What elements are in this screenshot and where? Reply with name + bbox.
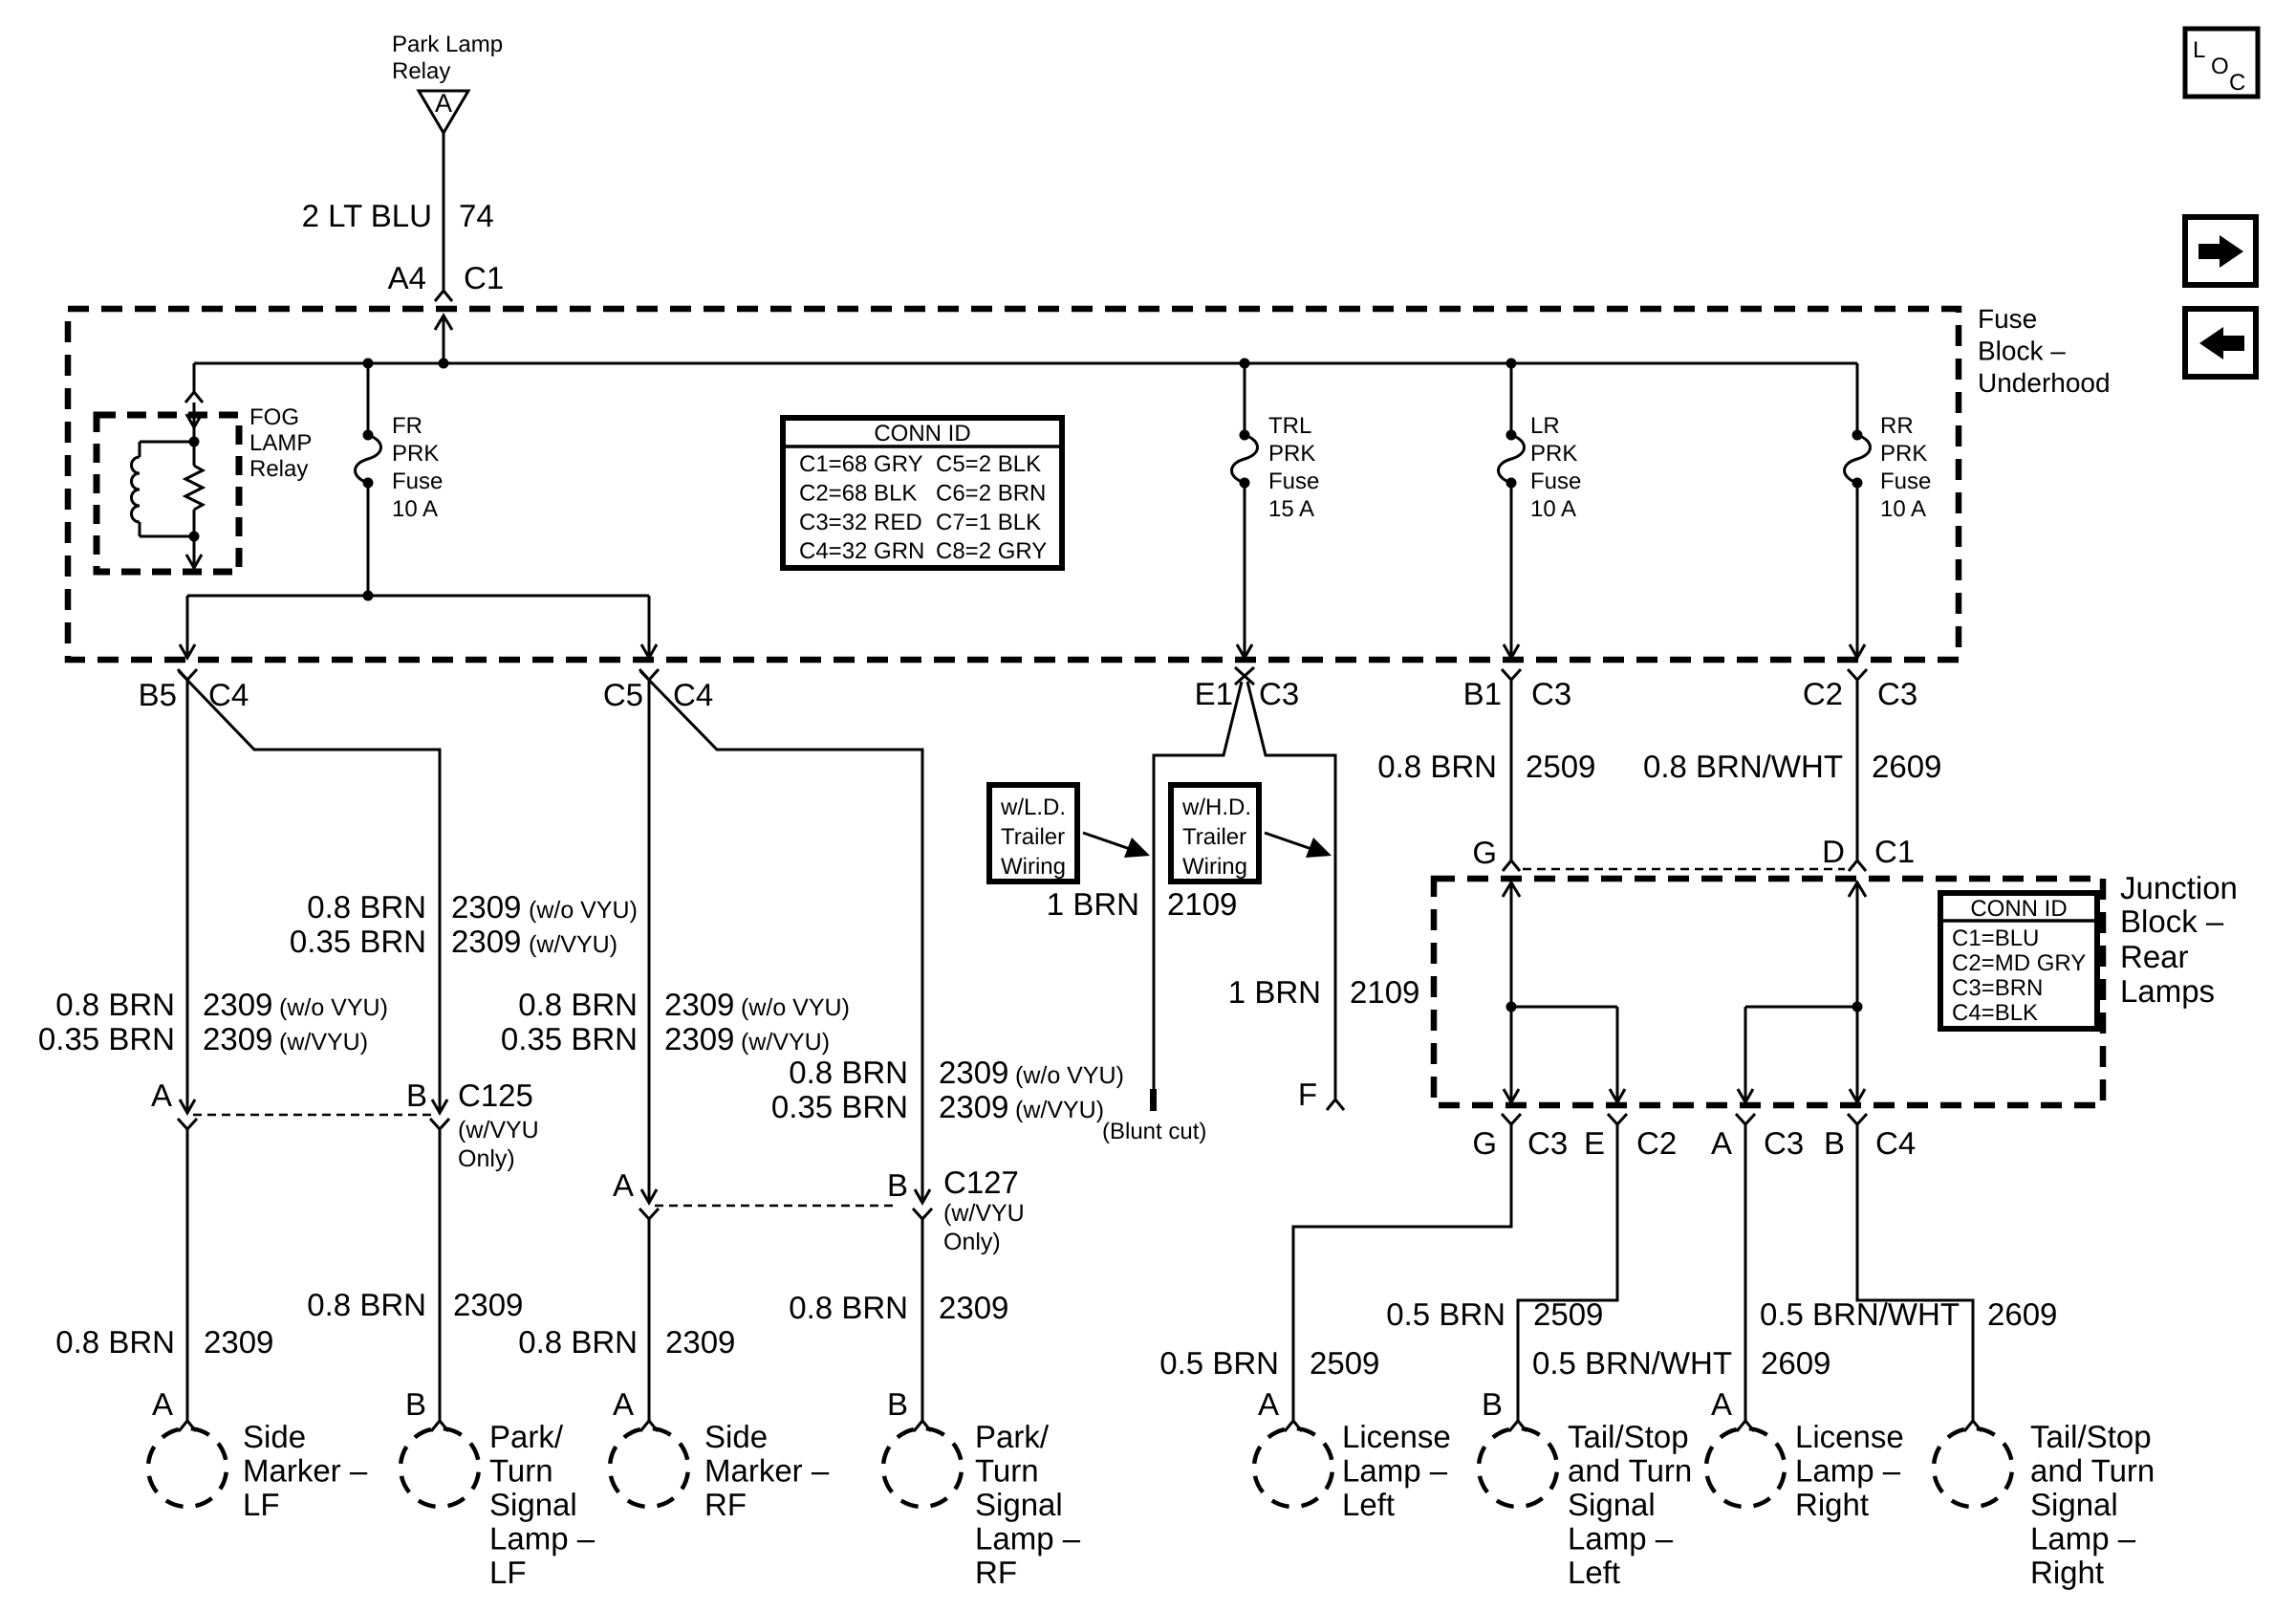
side marker RF lamp — [605, 1424, 692, 1511]
svg-text:Lamp –: Lamp – — [1795, 1453, 1901, 1489]
wire: G into junction block — [1510, 882, 1513, 1007]
svg-text:0.8 BRN: 0.8 BRN — [1377, 749, 1497, 784]
svg-text:Fuse: Fuse — [1880, 468, 1931, 494]
arrow at C5 — [641, 644, 657, 658]
svg-text:Fuse: Fuse — [1530, 468, 1581, 494]
svg-text:(Blunt cut): (Blunt cut) — [1102, 1119, 1206, 1144]
fog relay bottom junction — [189, 532, 200, 542]
fuse block CONN ID table — [783, 418, 1062, 568]
svg-text:Tail/Stop: Tail/Stop — [2030, 1419, 2152, 1454]
arrow into junction block G — [1503, 882, 1520, 897]
svg-text:2 LT BLU: 2 LT BLU — [302, 198, 432, 233]
svg-text:C6=2 BRN: C6=2 BRN — [936, 481, 1046, 507]
svg-text:C3: C3 — [1527, 1125, 1568, 1161]
svg-text:Lamp –: Lamp – — [2030, 1521, 2136, 1557]
wire: TRL fuse to E1 — [1244, 483, 1246, 658]
svg-text:F: F — [1298, 1077, 1317, 1112]
wire: B to tail/stop lamp right — [1857, 1124, 1973, 1421]
svg-text:A: A — [613, 1167, 634, 1203]
fog relay resistor — [193, 442, 196, 466]
fog relay coil — [132, 457, 141, 522]
svg-text:C1: C1 — [464, 260, 504, 295]
svg-text:(w/o VYU): (w/o VYU) — [1015, 1062, 1124, 1089]
lamp connector — [640, 1421, 658, 1431]
wire: fog relay to box edge — [193, 536, 196, 568]
svg-text:Fuse: Fuse — [392, 468, 443, 494]
svg-text:0.8 BRN: 0.8 BRN — [55, 1324, 175, 1360]
svg-text:C2: C2 — [1803, 676, 1843, 711]
wire: splice to A — [1745, 1006, 1857, 1009]
svg-text:2109: 2109 — [1350, 974, 1419, 1010]
svg-text:0.8 BRN: 0.8 BRN — [789, 1055, 908, 1090]
svg-text:C5: C5 — [603, 677, 643, 712]
wire: C1 to bus — [443, 316, 445, 363]
right arrow icon — [2185, 217, 2256, 285]
svg-text:0.35 BRN: 0.35 BRN — [290, 924, 426, 959]
svg-text:Turn: Turn — [489, 1453, 553, 1489]
svg-text:A: A — [151, 1078, 172, 1113]
svg-text:C1: C1 — [1874, 834, 1915, 869]
svg-text:Lamp –: Lamp – — [489, 1521, 596, 1557]
svg-text:Right: Right — [2030, 1555, 2104, 1590]
arrow at C127 B — [915, 1189, 930, 1203]
svg-text:C2=MD GRY: C2=MD GRY — [1952, 950, 2086, 976]
svg-text:C4=32 GRN: C4=32 GRN — [799, 538, 924, 564]
svg-text:C7=1 BLK: C7=1 BLK — [936, 510, 1041, 535]
svg-text:Lamp –: Lamp – — [975, 1521, 1081, 1557]
svg-text:w/H.D.: w/H.D. — [1181, 795, 1251, 820]
svg-text:0.8 BRN: 0.8 BRN — [789, 1290, 908, 1325]
park/turn signal RF lamp — [878, 1424, 965, 1511]
svg-text:Park/: Park/ — [489, 1419, 564, 1454]
svg-text:Lamps: Lamps — [2120, 973, 2215, 1009]
connector C127 B — [913, 1208, 932, 1219]
svg-text:2309: 2309 — [665, 1324, 735, 1360]
arrow at C2 — [1850, 644, 1865, 658]
wire: relay A to fuse block C1 — [443, 133, 445, 291]
wire: splice to G out — [1510, 1007, 1513, 1102]
arrow into fuse block — [435, 316, 452, 330]
svg-text:LAMP: LAMP — [249, 430, 312, 456]
svg-text:(w/o VYU): (w/o VYU) — [529, 897, 638, 924]
svg-text:and Turn: and Turn — [2030, 1453, 2155, 1489]
bus wire in fuse block — [194, 362, 1857, 365]
svg-text:C2: C2 — [1636, 1125, 1677, 1161]
svg-text:C127: C127 — [943, 1165, 1019, 1200]
svg-text:C: C — [2229, 70, 2245, 96]
wire: splice to A out — [1744, 1007, 1747, 1102]
svg-text:A: A — [1711, 1386, 1732, 1422]
svg-text:License: License — [1795, 1419, 1904, 1454]
svg-text:0.35 BRN: 0.35 BRN — [38, 1021, 175, 1056]
wire: C127 to side marker RF — [648, 1219, 651, 1421]
svg-text:O: O — [2211, 54, 2229, 79]
svg-text:(w/o VYU): (w/o VYU) — [741, 994, 850, 1021]
wire: C125 to park/turn LF — [439, 1129, 442, 1421]
wire into fog relay box — [193, 403, 196, 442]
svg-text:0.8 BRN: 0.8 BRN — [307, 1287, 426, 1322]
lamp connector — [1737, 1421, 1754, 1431]
svg-text:2509: 2509 — [1310, 1345, 1379, 1381]
svg-text:0.8 BRN: 0.8 BRN — [307, 889, 426, 925]
lamp connector — [914, 1421, 931, 1431]
svg-text:Marker –: Marker – — [243, 1453, 368, 1489]
svg-text:C2=68 BLK: C2=68 BLK — [799, 481, 917, 507]
svg-text:Lamp –: Lamp – — [1568, 1521, 1674, 1557]
svg-text:2309: 2309 — [203, 1021, 272, 1056]
svg-text:(w/VYU: (w/VYU — [458, 1117, 539, 1143]
svg-text:1 BRN: 1 BRN — [1047, 886, 1139, 922]
svg-text:TRL: TRL — [1268, 413, 1311, 439]
svg-text:A: A — [613, 1386, 634, 1422]
svg-text:C4=BLK: C4=BLK — [1952, 1000, 2038, 1026]
junction TRL PRK fuse — [1240, 359, 1250, 369]
svg-text:Trailer: Trailer — [1001, 824, 1065, 850]
wire: LR fuse to B1 — [1510, 483, 1513, 658]
junction FR PRK fuse — [363, 359, 374, 369]
lamp connector — [1964, 1421, 1982, 1431]
svg-text:LR: LR — [1530, 413, 1560, 439]
connector A/C3 — [1736, 1114, 1755, 1124]
junction C1/bus — [439, 359, 449, 369]
wire: C2 to junction block D — [1856, 680, 1859, 860]
arrow at A — [1738, 1089, 1753, 1102]
svg-text:0.8 BRN/WHT: 0.8 BRN/WHT — [1643, 749, 1843, 784]
svg-text:1 BRN: 1 BRN — [1228, 974, 1321, 1010]
svg-text:2309: 2309 — [939, 1089, 1008, 1124]
svg-text:(w/VYU): (w/VYU) — [1015, 1097, 1104, 1123]
svg-text:C3: C3 — [1877, 676, 1917, 711]
svg-text:RF: RF — [704, 1487, 747, 1522]
wire: A to license lamp right — [1744, 1124, 1747, 1421]
lamp connector — [431, 1421, 448, 1431]
arrow from L.D. box — [1083, 833, 1136, 851]
svg-text:0.35 BRN: 0.35 BRN — [501, 1021, 638, 1056]
svg-text:Side: Side — [243, 1419, 306, 1454]
connector B/C4 — [1848, 1114, 1867, 1124]
svg-text:Wiring: Wiring — [1001, 854, 1066, 880]
svg-text:B: B — [1824, 1125, 1845, 1161]
svg-text:FOG: FOG — [249, 404, 299, 430]
svg-text:0.5 BRN: 0.5 BRN — [1159, 1345, 1279, 1381]
w/H.D. Trailer Wiring box — [1171, 785, 1259, 882]
svg-text:Side: Side — [704, 1419, 768, 1454]
svg-text:C3: C3 — [1764, 1125, 1804, 1161]
FR PRK fuse 10A — [356, 430, 381, 489]
svg-text:and Turn: and Turn — [1568, 1453, 1692, 1489]
svg-text:RR: RR — [1880, 413, 1914, 439]
wire: E to tail/stop lamp left — [1518, 1124, 1617, 1421]
park/turn signal LF lamp — [396, 1424, 483, 1511]
svg-text:(w/o VYU): (w/o VYU) — [279, 994, 388, 1021]
license lamp right — [1701, 1424, 1788, 1511]
svg-text:Signal: Signal — [975, 1487, 1063, 1522]
svg-text:0.8 BRN: 0.8 BRN — [518, 987, 638, 1022]
wire: bus to LR PRK fuse — [1510, 363, 1513, 435]
connector chevron D/C1 — [1849, 860, 1866, 871]
svg-text:Lamp –: Lamp – — [1342, 1453, 1448, 1489]
LR PRK fuse 10A — [1499, 430, 1525, 489]
svg-text:2609: 2609 — [1761, 1345, 1830, 1381]
svg-text:Left: Left — [1568, 1555, 1620, 1590]
svg-text:0.5 BRN/WHT: 0.5 BRN/WHT — [1760, 1296, 1960, 1332]
svg-text:PRK: PRK — [1530, 441, 1577, 467]
svg-text:Signal: Signal — [1568, 1487, 1656, 1522]
svg-text:Park Lamp: Park Lamp — [392, 32, 503, 57]
junction G splice — [1506, 1002, 1517, 1012]
fuse block underhood dashed border — [68, 309, 1959, 660]
lamp connector — [1285, 1421, 1302, 1431]
license lamp left — [1249, 1424, 1336, 1511]
svg-text:Trailer: Trailer — [1182, 824, 1246, 850]
svg-text:Fuse: Fuse — [1978, 304, 2037, 334]
svg-text:License: License — [1342, 1419, 1451, 1454]
svg-text:2609: 2609 — [1872, 749, 1941, 784]
w/L.D. Trailer Wiring box — [989, 785, 1077, 882]
svg-text:B: B — [1482, 1386, 1503, 1422]
svg-text:PRK: PRK — [1268, 441, 1315, 467]
wire: splice to B out — [1856, 1007, 1859, 1102]
svg-text:Right: Right — [1795, 1487, 1869, 1522]
wire: to B5 — [186, 596, 189, 658]
svg-text:Only): Only) — [943, 1229, 1001, 1255]
svg-text:2309: 2309 — [451, 889, 521, 925]
svg-text:CONN ID: CONN ID — [874, 421, 970, 446]
svg-text:B1: B1 — [1463, 676, 1502, 711]
svg-text:D: D — [1822, 834, 1845, 869]
svg-text:Wiring: Wiring — [1182, 854, 1247, 880]
wire: splice to E out — [1616, 1007, 1619, 1102]
svg-text:Block –: Block – — [1978, 337, 2066, 366]
svg-text:Relay: Relay — [249, 456, 308, 482]
svg-text:10 A: 10 A — [392, 496, 438, 522]
svg-text:Junction: Junction — [2120, 870, 2238, 905]
arrow at B1 — [1504, 644, 1519, 658]
svg-text:C5=2 BLK: C5=2 BLK — [936, 451, 1041, 477]
connector C125 B — [430, 1119, 449, 1129]
svg-text:0.8 BRN: 0.8 BRN — [518, 1324, 638, 1360]
wire: B5 to C125 pin A — [186, 680, 189, 1113]
TRL PRK fuse 15A — [1232, 430, 1258, 489]
svg-text:Signal: Signal — [2030, 1487, 2118, 1522]
junction D splice — [1852, 1002, 1863, 1012]
arrow at B — [1850, 1089, 1865, 1102]
svg-text:G: G — [1472, 1125, 1497, 1161]
connector chevron fog relay — [185, 392, 203, 403]
svg-text:w/L.D.: w/L.D. — [1000, 795, 1066, 820]
svg-text:C125: C125 — [458, 1078, 533, 1113]
junction block CONN ID table — [1940, 893, 2097, 1029]
wire: E1 splice to LD and HD trailer wires — [1154, 682, 1242, 1089]
svg-text:PRK: PRK — [1880, 441, 1927, 467]
svg-text:LF: LF — [489, 1555, 527, 1590]
wire: C125 to side marker LF — [186, 1129, 189, 1421]
side marker LF lamp — [143, 1424, 230, 1511]
junction LR PRK fuse — [1506, 359, 1517, 369]
RR PRK fuse 10A — [1845, 430, 1871, 489]
wire: bus to fog lamp relay — [193, 363, 196, 392]
svg-text:2309: 2309 — [203, 987, 272, 1022]
fog relay top junction — [189, 437, 200, 447]
svg-text:10 A: 10 A — [1880, 496, 1926, 522]
arrow at C125 A — [180, 1099, 195, 1113]
svg-text:A: A — [435, 89, 452, 118]
junction block rear lamps dashed border — [1434, 879, 2103, 1105]
junction block connector dashed line — [1523, 868, 1845, 871]
svg-text:PRK: PRK — [392, 441, 439, 467]
arrow at C125 B — [432, 1099, 447, 1113]
arrow at G — [1504, 1089, 1519, 1102]
svg-text:E1: E1 — [1195, 676, 1233, 711]
arrow at E1 — [1237, 644, 1252, 658]
svg-text:(w/VYU: (w/VYU — [943, 1200, 1025, 1227]
park lamp relay triangle A — [419, 91, 468, 133]
svg-text:A: A — [1711, 1125, 1732, 1161]
left arrow icon — [2185, 309, 2256, 377]
connector C2/C3 — [1848, 669, 1867, 680]
svg-text:2309: 2309 — [939, 1290, 1008, 1325]
svg-text:74: 74 — [459, 198, 494, 233]
wire: C127 to park/turn RF — [921, 1219, 924, 1421]
wire: splice to E — [1511, 1006, 1617, 1009]
wire: FR PRK fuse to lower bus — [367, 483, 370, 596]
wire to relay coil — [140, 441, 194, 444]
svg-text:L: L — [2193, 37, 2205, 63]
svg-text:Rear: Rear — [2120, 939, 2189, 974]
wire: bus to TRL PRK fuse — [1244, 363, 1246, 435]
svg-text:0.5 BRN: 0.5 BRN — [1386, 1296, 1505, 1332]
svg-text:Fuse: Fuse — [1268, 468, 1319, 494]
LOC icon — [2185, 29, 2258, 97]
svg-text:2509: 2509 — [1533, 1296, 1603, 1332]
svg-text:15 A: 15 A — [1268, 496, 1314, 522]
svg-text:B: B — [405, 1386, 426, 1422]
svg-text:Block –: Block – — [2120, 903, 2224, 939]
junction lower bus — [363, 591, 374, 601]
svg-text:(w/VYU): (w/VYU) — [529, 931, 617, 958]
svg-text:0.8 BRN: 0.8 BRN — [55, 987, 175, 1022]
svg-text:2309: 2309 — [204, 1324, 273, 1360]
svg-text:Signal: Signal — [489, 1487, 577, 1522]
svg-text:10 A: 10 A — [1530, 496, 1576, 522]
svg-text:2609: 2609 — [1987, 1296, 2057, 1332]
svg-text:C3: C3 — [1531, 676, 1571, 711]
svg-text:(w/VYU): (w/VYU) — [741, 1029, 830, 1056]
connector B5/C4 — [178, 669, 197, 680]
svg-text:2309: 2309 — [664, 1021, 734, 1056]
svg-text:Tail/Stop: Tail/Stop — [1568, 1419, 1689, 1454]
connector C127 A — [639, 1208, 659, 1219]
svg-text:B: B — [406, 1078, 427, 1113]
wire: RR fuse to C2 — [1856, 483, 1859, 658]
svg-text:G: G — [1472, 835, 1497, 870]
svg-text:2309: 2309 — [664, 987, 734, 1022]
wire from relay coil — [140, 535, 194, 538]
svg-text:2309: 2309 — [939, 1055, 1008, 1090]
blunt cut wire end — [1150, 1089, 1157, 1111]
tail/stop lamp left — [1474, 1424, 1561, 1511]
connector E/C2 — [1608, 1114, 1627, 1124]
svg-text:2509: 2509 — [1526, 749, 1595, 784]
fog lamp relay dashed box — [97, 415, 239, 572]
wire: lower bus to B5 and C5 — [187, 595, 649, 598]
svg-text:CONN ID: CONN ID — [1970, 896, 2067, 922]
svg-text:2109: 2109 — [1167, 886, 1237, 922]
connector C125 A — [178, 1119, 197, 1129]
svg-text:C1=68 GRY: C1=68 GRY — [799, 451, 923, 477]
svg-text:C3=BRN: C3=BRN — [1952, 975, 2043, 1001]
connector chevron at fuse block top — [435, 291, 452, 301]
arrow into junction block D — [1849, 882, 1866, 897]
arrow into fog relay — [186, 414, 202, 427]
svg-text:Left: Left — [1342, 1487, 1395, 1522]
arrow at C127 A — [641, 1189, 657, 1203]
connector C5/C4 — [639, 669, 659, 680]
svg-text:C1=BLU: C1=BLU — [1952, 925, 2039, 951]
svg-text:C3: C3 — [1259, 676, 1299, 711]
wire: G to license lamp left — [1293, 1124, 1511, 1421]
svg-text:B5: B5 — [139, 677, 177, 712]
svg-text:Only): Only) — [458, 1145, 515, 1172]
svg-text:FR: FR — [392, 413, 422, 439]
svg-text:E: E — [1584, 1125, 1605, 1161]
svg-text:Marker –: Marker – — [704, 1453, 830, 1489]
tail/stop lamp right — [1929, 1424, 2016, 1511]
connector chevron G — [1503, 860, 1520, 871]
wire: B5 branch to park/turn LF — [179, 671, 440, 1113]
arrow at B5 — [180, 644, 195, 658]
wire: bus to RR PRK fuse — [1856, 363, 1859, 435]
svg-text:(w/VYU): (w/VYU) — [279, 1029, 368, 1056]
svg-text:RF: RF — [975, 1555, 1017, 1590]
svg-text:B: B — [887, 1167, 908, 1203]
svg-text:B: B — [887, 1386, 908, 1422]
connector E1/C3 splice — [1235, 667, 1254, 685]
lamp connector — [179, 1421, 196, 1431]
svg-text:0.5 BRN/WHT: 0.5 BRN/WHT — [1532, 1345, 1732, 1381]
svg-text:C3=32 RED: C3=32 RED — [799, 510, 922, 535]
svg-text:2309: 2309 — [451, 924, 521, 959]
arrow at E — [1610, 1089, 1625, 1102]
wire: C5 to C127 pin A — [648, 680, 651, 1203]
svg-text:2309: 2309 — [453, 1287, 523, 1322]
connector C127 dashed line — [655, 1205, 899, 1208]
arrow from H.D. box — [1265, 833, 1317, 851]
wire: to C5 — [648, 596, 651, 658]
svg-text:A4: A4 — [388, 260, 426, 295]
svg-text:A: A — [152, 1386, 173, 1422]
svg-text:C4: C4 — [673, 677, 713, 712]
svg-text:0.35 BRN: 0.35 BRN — [771, 1089, 908, 1124]
wire: bus to FR PRK fuse — [367, 363, 370, 435]
svg-text:C4: C4 — [1875, 1125, 1916, 1161]
wire: C5 branch to park/turn RF — [640, 671, 922, 1203]
svg-text:A: A — [1258, 1386, 1279, 1422]
wire: D into junction block — [1856, 882, 1859, 1007]
svg-text:Park/: Park/ — [975, 1419, 1050, 1454]
svg-text:Underhood: Underhood — [1978, 368, 2111, 398]
lamp connector — [1509, 1421, 1527, 1431]
svg-text:C8=2 GRY: C8=2 GRY — [936, 538, 1047, 564]
connector C125 dashed line — [193, 1114, 434, 1117]
svg-text:LF: LF — [243, 1487, 280, 1522]
wire: B1 to junction block G — [1510, 680, 1513, 860]
connector B1/C3 — [1502, 669, 1521, 680]
svg-text:Relay: Relay — [392, 58, 450, 84]
svg-text:Turn: Turn — [975, 1453, 1039, 1489]
arrow out of fog relay — [186, 555, 202, 568]
connector G/C3 — [1502, 1114, 1521, 1124]
